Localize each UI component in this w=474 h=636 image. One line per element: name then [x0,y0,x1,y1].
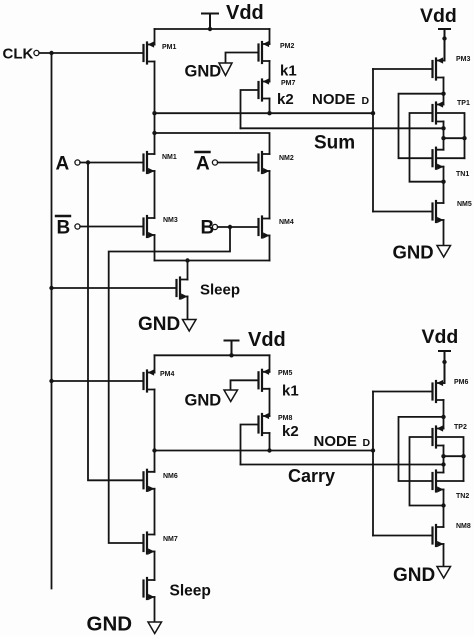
svg-text:k1: k1 [280,63,297,80]
wire PM4 source to rail [154,355,156,372]
wire A to NM1 gate [80,162,143,164]
svg-text:k1: k1 [282,383,299,400]
wire CLK vertical down left side [51,53,53,589]
svg-text:TP2: TP2 [454,424,467,431]
svg-text:CLK: CLK [3,46,34,63]
transistor NM7 [144,533,178,555]
wire NM5 gate to node D [373,211,433,213]
transistor PM4 [144,369,175,391]
wire PM7 drain to node D [269,99,271,114]
svg-text:Sleep: Sleep [170,583,211,600]
wire bulk link (Carry latch) [444,455,464,457]
junction B branch dot [228,225,232,229]
wire B to NM4 gate [218,226,259,228]
wire TP2 bulk to right rail [436,437,464,481]
junction node D carry left [152,448,156,452]
transistor TP1 [433,100,470,124]
transistor PM1 [144,41,177,63]
svg-text:NM3: NM3 [163,217,178,224]
svg-text:Vdd: Vdd [248,329,286,351]
svg-text:A: A [196,154,210,175]
svg-text:PM3: PM3 [456,56,471,63]
junction PM4 gate on CLK line [49,379,53,383]
transistor TN1 [433,148,470,178]
Vdd supply symbol top center [202,14,218,30]
wire NM1 source to NM3 drain [154,171,156,218]
transistor NM3 [144,216,178,238]
wire PM7 gate to Sum feedback [241,90,259,128]
junction A branch dot [86,160,90,164]
svg-text:NM4: NM4 [279,219,294,226]
wire node D carry vertical to latch gates [372,392,374,536]
wire NM8 source to ground [443,544,445,567]
junction carry bulk link left [441,454,445,458]
transistor PM2 (keeper k1) [259,41,297,80]
junction sleep drain dot [185,258,189,262]
svg-text:TP1: TP1 [457,100,470,107]
svg-text:D: D [363,437,371,449]
wire Sum output line [241,127,444,129]
ground symbol Sum latch [393,242,451,263]
svg-text:Vdd: Vdd [422,326,459,348]
svg-text:Vdd: Vdd [226,2,264,24]
ground symbol at PM5 gate [185,380,259,409]
wire sleep1 drain [187,261,189,280]
svg-text:TN1: TN1 [456,171,469,178]
junction node D right [371,111,375,115]
svg-text:A: A [56,154,70,175]
junction TP2 gate feedback at TN2 source [441,503,445,507]
junction CLK branch dot [49,51,53,55]
wire NM8 gate to node D carry [373,535,433,537]
svg-text:TN2: TN2 [456,493,469,500]
wire A-bar to NM2 gate [218,162,259,164]
svg-text:Sleep: Sleep [200,282,240,299]
svg-text:NM5: NM5 [457,201,472,208]
wire PM6 drain to TP2 source [443,400,445,429]
svg-text:GND: GND [185,63,222,81]
svg-text:B: B [57,218,71,239]
svg-text:NODE: NODE [314,433,357,450]
wire NM6 source to NM7 drain [154,489,156,535]
junction Sum line at latch [441,126,445,130]
transistor NM5 [433,201,472,223]
wire PM1 drain down to NM1 drain [154,62,156,155]
wire NMOS drain rail (Sum section) [155,133,270,154]
wire node D vertical to latch gates [372,69,374,212]
junction PM3 drain [441,92,445,96]
svg-text:Vdd: Vdd [420,5,457,27]
junction sleep1 gate on CLK line [49,286,53,290]
wire PM3 gate to node D [373,68,433,70]
wire TN2 bulk to right rail [436,480,464,482]
wire NM2 source to NM4 drain [269,171,271,219]
node CLK input [3,46,40,63]
transistor Sleep (Carry section) [144,578,211,600]
svg-text:GND: GND [393,565,435,586]
transistor NM8 [433,523,471,547]
transistor TP2 [433,424,467,448]
node NODE D label (Sum) [312,91,370,108]
wire PM2 drain to PM7 source [269,61,271,82]
node A-bar input [196,152,218,175]
wire NM4 source to sleep rail [269,236,271,261]
wire TN2 source to NM8 drain [443,490,445,528]
svg-text:GND: GND [185,392,222,410]
Vdd supply symbol lower left [225,341,239,358]
wire sleep1 source to ground [187,297,189,320]
wire NM3 source to sleep rail [154,235,156,261]
svg-text:NM1: NM1 [162,154,177,161]
svg-text:NM8: NM8 [456,523,471,530]
wire Carry output line [241,464,444,466]
wire TN1 source to NM5 drain [443,167,445,203]
wire PM4 gate from CLK line [52,380,144,382]
wire B-bar to NM3 gate [80,226,143,228]
ground symbol at PM2 gate [185,53,259,81]
ground symbol Carry latch [393,565,451,586]
node B input [201,218,218,239]
wire NM7 source to sleep2 drain [154,552,156,581]
transistor PM5 (keeper k1) [259,369,299,400]
junction TP1 gate feedback at TN1 source [441,180,445,184]
wire sleep1 gate from CLK [52,287,177,289]
wire TP2 gate feedback [410,437,444,506]
svg-text:PM6: PM6 [454,379,469,386]
svg-text:k2: k2 [277,91,294,108]
wire sleep2 source to ground [154,597,156,622]
svg-text:PM4: PM4 [160,371,175,378]
transistor PM3 (Sum latch) [433,56,471,80]
svg-text:NODE: NODE [312,91,355,108]
svg-text:NM7: NM7 [163,536,178,543]
transistor Sleep (Sum section) [177,278,241,300]
svg-text:PM7: PM7 [281,80,296,87]
transistor PM8 (keeper k2) [259,413,299,440]
wire PM3 drain to TP1 source [443,78,445,105]
node B-bar input [56,216,80,239]
junction PM6 drain [441,415,445,419]
wire PM8 gate to Carry feedback [241,425,259,465]
junction Carry line at latch [441,462,445,466]
Vdd supply symbol top right [439,29,450,61]
wire PM1 source to Vdd rail [154,29,156,45]
junction drain rail left [152,131,156,135]
wire TP1 gate feedback [410,113,444,182]
wire node D horizontal (Carry section) [155,450,374,452]
transistor PM6 (Carry latch) [433,379,469,402]
wire PM4 drain down to NM6 drain [154,390,156,472]
junction carry bulk link right [461,454,465,458]
ground symbol bottom left [87,613,162,636]
wire sleep rail (Sum section) [155,260,270,262]
junction node D left [152,111,156,115]
wire TP1 bulk to right rail [436,113,465,158]
svg-text:Sum: Sum [314,133,355,154]
junction PM7 drain on node D [267,111,271,115]
junction PM8 drain on node D [267,448,271,452]
svg-text:NM2: NM2 [279,155,294,162]
transistor NM4 [259,217,294,239]
wire PM6 drain cross-couple to TN2 gate [399,417,444,481]
node NODE D label (Carry) [314,433,371,450]
wire PM5 drain to PM8 source [269,389,271,416]
svg-text:PM1: PM1 [162,44,177,51]
svg-text:PM2: PM2 [280,43,295,50]
wire PM8 drain to node D carry [269,433,271,451]
wire NM5 source to ground [443,220,445,246]
ground symbol below sleep1 [138,314,196,335]
wire CLK to PM1 gate [39,52,143,54]
wire PM6 gate to node D carry [373,391,433,393]
wire top Vdd rail [155,28,270,30]
wire TP1 drain to TN1 drain [443,122,445,150]
wire B feed down to NM7 gate [109,227,230,543]
svg-text:k2: k2 [282,423,299,440]
svg-text:Carry: Carry [288,466,335,486]
transistor NM2 [259,152,294,174]
junction node D carry right [371,448,375,452]
svg-text:GND: GND [138,314,180,335]
junction output-bulk link left [441,136,445,140]
transistor PM7 (keeper k2) [259,78,296,108]
wire node D horizontal (Sum section) [155,112,374,114]
svg-text:PM5: PM5 [278,370,293,377]
transistor NM1 [144,152,177,174]
wire TP2 drain to TN2 drain [443,446,445,473]
node A input [56,154,81,175]
wire TN1 bulk to right rail [436,157,465,159]
wire lower Vdd rail [155,354,270,356]
svg-text:NM6: NM6 [163,473,178,480]
wire PM5 source to rail [269,355,271,372]
svg-text:PM8: PM8 [278,415,293,422]
junction output-bulk link right [462,136,466,140]
svg-text:GND: GND [393,242,434,263]
wire A vertical down to NM6 gate [88,163,144,481]
svg-text:GND: GND [87,613,133,636]
wire bulk link (Sum latch) [444,137,465,139]
transistor NM6 [144,470,178,492]
junction Vdd rail dot [208,27,212,31]
wire PM2 source to Vdd rail [269,29,271,44]
transistor TN2 [433,471,470,501]
Vdd supply symbol lower right [439,351,450,383]
wire PM3 drain cross-couple to TN1 gate [399,94,444,159]
svg-text:D: D [362,95,370,107]
